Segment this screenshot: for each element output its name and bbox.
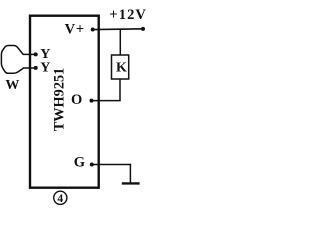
svg-text:TWH9251: TWH9251 [52, 68, 68, 132]
svg-text:V+: V+ [65, 22, 85, 38]
svg-text:+12V: +12V [109, 7, 147, 23]
svg-text:W: W [5, 78, 19, 93]
svg-text:Y: Y [40, 61, 50, 76]
svg-text:O: O [71, 92, 82, 108]
svg-text:G: G [74, 155, 85, 171]
svg-text:4: 4 [57, 193, 63, 205]
svg-text:K: K [116, 61, 127, 76]
